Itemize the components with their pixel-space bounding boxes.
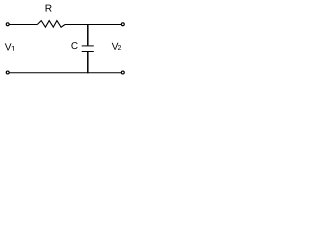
wire top-right (from resistor past junction to output terminal) xyxy=(65,24,121,26)
terminal bottom-left (open circle) xyxy=(6,71,9,74)
label V1 subscript 1 xyxy=(12,46,14,51)
wire bottom (return wire between bottom terminals) xyxy=(9,72,121,74)
capacitor C bottom plate xyxy=(82,51,94,53)
terminal top-right (open circle) xyxy=(121,23,124,26)
terminal bottom-right (open circle) xyxy=(121,71,124,74)
capacitor C top plate xyxy=(82,45,94,47)
label C xyxy=(71,42,77,49)
resistor R (zigzag) xyxy=(37,21,65,28)
wire capacitor upper lead (junction down to top plate) xyxy=(87,25,89,46)
terminal top-left (open circle) xyxy=(6,23,9,26)
wire top-left (from input terminal to resistor) xyxy=(9,24,37,26)
label V2 letter V xyxy=(112,43,119,50)
label V2 subscript 2 xyxy=(118,45,121,50)
wire capacitor lower lead (bottom plate down to bottom wire) xyxy=(87,52,89,73)
label V1 letter V xyxy=(5,43,12,50)
label R xyxy=(46,5,52,12)
